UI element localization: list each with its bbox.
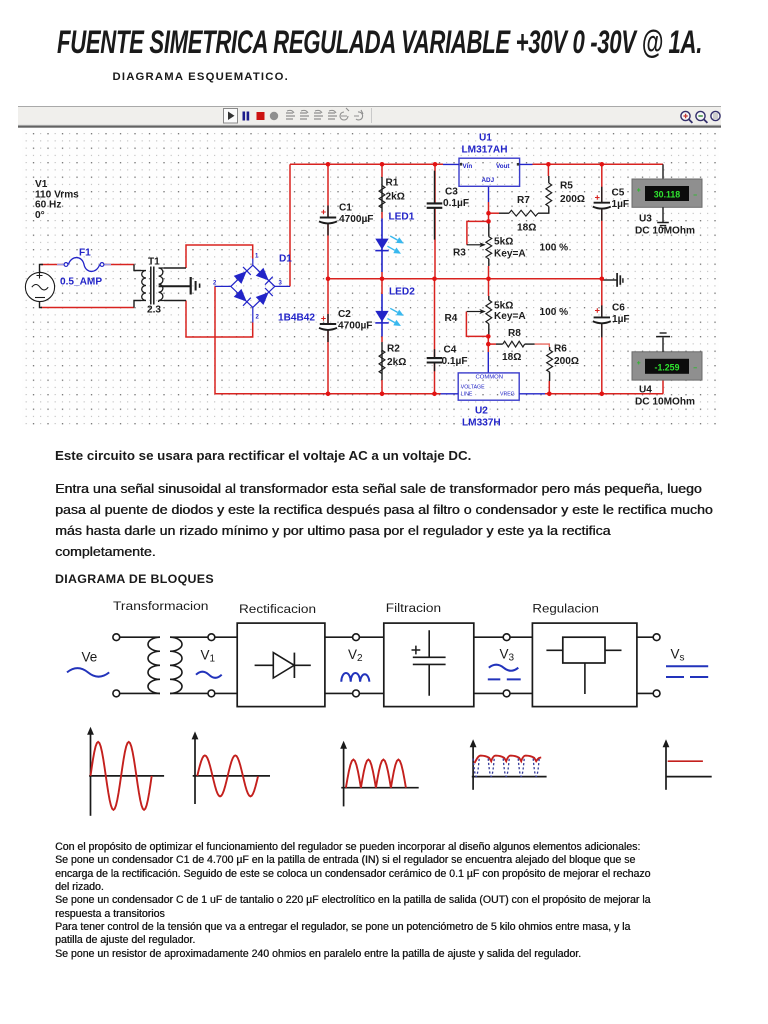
signal squiggle Ve bbox=[67, 668, 109, 677]
resistor R6 bbox=[547, 350, 553, 372]
toolbar pause button bbox=[243, 112, 250, 121]
svg-text:Regulacion: Regulacion bbox=[532, 601, 599, 615]
toolbar zoom-out icon bbox=[696, 111, 708, 123]
signal squiggle V2 bumps bbox=[341, 673, 369, 682]
label R4 bbox=[445, 301, 569, 325]
toolbar separator bbox=[371, 108, 372, 123]
svg-text:V1: V1 bbox=[201, 648, 216, 665]
label LED1 bbox=[389, 212, 415, 223]
fuse F1 bbox=[57, 258, 111, 272]
label R2 bbox=[387, 344, 406, 369]
paragraph: circuit purpose bbox=[55, 445, 471, 466]
U3 ground lead bbox=[657, 207, 669, 228]
label C6 bbox=[612, 302, 630, 325]
label R7 bbox=[517, 195, 536, 234]
transformer center-tap ground bbox=[159, 277, 200, 295]
voltage source V1 bbox=[25, 272, 54, 301]
wire junctions bbox=[326, 162, 604, 396]
label U2 bbox=[462, 406, 501, 429]
paragraph: bottom notes bbox=[55, 841, 650, 961]
op-amp regulator U1 LM317AH bbox=[443, 158, 533, 186]
waveform 2 secondary sine bbox=[192, 731, 270, 804]
block diagram terminals bbox=[113, 634, 660, 697]
label C3 bbox=[443, 186, 469, 209]
label LED2 bbox=[389, 287, 415, 298]
canvas grid bbox=[22, 129, 719, 426]
capacitor C3 bbox=[427, 171, 443, 240]
wire: top rail +V bbox=[290, 163, 443, 165]
block wires regulator to output bbox=[637, 637, 653, 693]
wire: C1-C2 branch vertical bbox=[327, 164, 329, 393]
toolbar record button bbox=[270, 112, 278, 120]
wire: R7 to ADJ junction bbox=[489, 212, 510, 214]
toolbar play button bbox=[224, 109, 238, 124]
U4 ground on top bbox=[656, 333, 670, 352]
label R8 bbox=[502, 328, 521, 363]
svg-text:V2: V2 bbox=[348, 647, 363, 664]
label R1 bbox=[386, 178, 405, 203]
svg-text:Vs: Vs bbox=[671, 647, 685, 664]
toolbar bbox=[18, 106, 721, 128]
wire: bridge output to top rail bbox=[289, 164, 291, 286]
toolbar stop button bbox=[257, 112, 265, 120]
potentiometer R3 bbox=[467, 237, 492, 259]
bridge rectifier D1 bbox=[215, 259, 290, 323]
block labels bbox=[113, 599, 599, 616]
label C2 bbox=[338, 309, 372, 332]
label U1 bbox=[462, 133, 508, 156]
capacitor C6 bbox=[593, 305, 611, 337]
svg-text:Filtracion: Filtracion bbox=[386, 601, 441, 615]
signal labels bbox=[82, 647, 685, 665]
label C4 bbox=[442, 344, 468, 367]
subtitle bbox=[113, 71, 289, 83]
block transformer windings bbox=[120, 637, 208, 693]
label R6 bbox=[554, 344, 579, 368]
wire: transformer secondary bottom to bridge bbox=[164, 301, 253, 338]
wire: R3 wiper loop bbox=[467, 213, 489, 245]
label C5 bbox=[612, 188, 630, 211]
wire: U1 Vout to rail / R5 junction bbox=[533, 163, 664, 165]
signal lines Vs bbox=[666, 666, 708, 677]
capacitor C2 bbox=[319, 314, 337, 342]
toolbar zoom-in icon bbox=[681, 111, 693, 123]
wire: U3 meter top lead bbox=[662, 164, 664, 179]
label R5 bbox=[560, 181, 585, 206]
wire: R8 leads bbox=[488, 344, 549, 347]
wire: R4 bottom / R8 junction / U2 control bbox=[487, 324, 490, 373]
signal squiggle V3 ripple bbox=[488, 665, 521, 680]
wire: R5-R7 branch bbox=[538, 164, 549, 213]
rectifier block box bbox=[237, 623, 325, 707]
heading: diagrama de bloques bbox=[55, 572, 214, 586]
wire: R4 top from mid rail bbox=[488, 279, 490, 300]
wire: C5-C6 branch vertical bbox=[601, 164, 603, 393]
block wires transformer to rectifier bbox=[215, 637, 237, 693]
wire: fuse to transformer primary bbox=[105, 265, 142, 271]
wire: ADJ pin vertical bbox=[488, 186, 490, 213]
label U4 bbox=[635, 385, 695, 408]
potentiometer R4 bbox=[467, 300, 492, 324]
ground (mid rail) bbox=[603, 273, 623, 287]
resistor R7 bbox=[509, 210, 538, 216]
wire: mid rail 0V bbox=[328, 278, 602, 280]
svg-text:Ve: Ve bbox=[82, 650, 98, 665]
capacitor C1 bbox=[319, 206, 337, 236]
capacitor C5 bbox=[593, 187, 611, 221]
wire: transformer secondary top to bridge bbox=[164, 245, 253, 268]
label F1 bbox=[60, 248, 102, 288]
block wires rectifier to filter bbox=[325, 637, 384, 693]
waveform 4 filtered ripple bbox=[470, 739, 547, 790]
resistor R2 bbox=[379, 350, 385, 373]
wire: R6 leads bbox=[548, 347, 550, 394]
paragraph: explanation bbox=[55, 478, 713, 562]
wire: LED chain vertical bbox=[381, 164, 383, 393]
filter block box bbox=[384, 623, 474, 707]
label V1 value bbox=[35, 179, 79, 221]
wire: C3-C4 branch vertical bbox=[434, 164, 437, 393]
svg-text:Transformacion: Transformacion bbox=[113, 599, 209, 613]
toolbar step icons bbox=[286, 108, 363, 120]
wire: R4 wiper loop bbox=[466, 312, 488, 337]
wire: R3 body connections bbox=[488, 221, 490, 278]
resistor R1 bbox=[379, 186, 385, 209]
toolbar zoom-page icon bbox=[711, 111, 720, 120]
waveform 1 input sine bbox=[87, 727, 164, 816]
wire: transformer primary bottom to source bbox=[40, 301, 142, 308]
label T1 bbox=[147, 257, 161, 316]
label R3 bbox=[453, 237, 568, 260]
signal squiggle V1 bbox=[196, 672, 222, 678]
capacitor C4 bbox=[427, 349, 443, 371]
waveform 3 rectified bumps bbox=[340, 741, 419, 807]
label D1 bbox=[213, 254, 315, 324]
transformer T1 bbox=[141, 267, 164, 305]
regulator block box bbox=[532, 623, 637, 707]
resistor R8 bbox=[503, 341, 525, 347]
op-amp regulator U2 LM337H bbox=[441, 373, 546, 400]
LED LED2 bbox=[375, 308, 404, 326]
svg-text:V3: V3 bbox=[500, 647, 515, 664]
LED LED1 bbox=[375, 236, 404, 254]
wire: U4 meter bottom lead bbox=[662, 380, 664, 394]
waveform 5 regulated DC bbox=[663, 739, 712, 790]
multimeter U4 bbox=[632, 352, 702, 380]
block wires filter to regulator bbox=[474, 637, 533, 693]
wire: source to fuse bbox=[40, 265, 64, 273]
resistor R5 bbox=[546, 183, 552, 207]
label U3 bbox=[635, 214, 695, 237]
multimeter U3 bbox=[632, 179, 702, 207]
title bbox=[57, 26, 702, 58]
wire: bottom rail -V bbox=[215, 286, 663, 393]
svg-text:Rectificacion: Rectificacion bbox=[239, 602, 316, 616]
label C1 bbox=[339, 203, 373, 226]
